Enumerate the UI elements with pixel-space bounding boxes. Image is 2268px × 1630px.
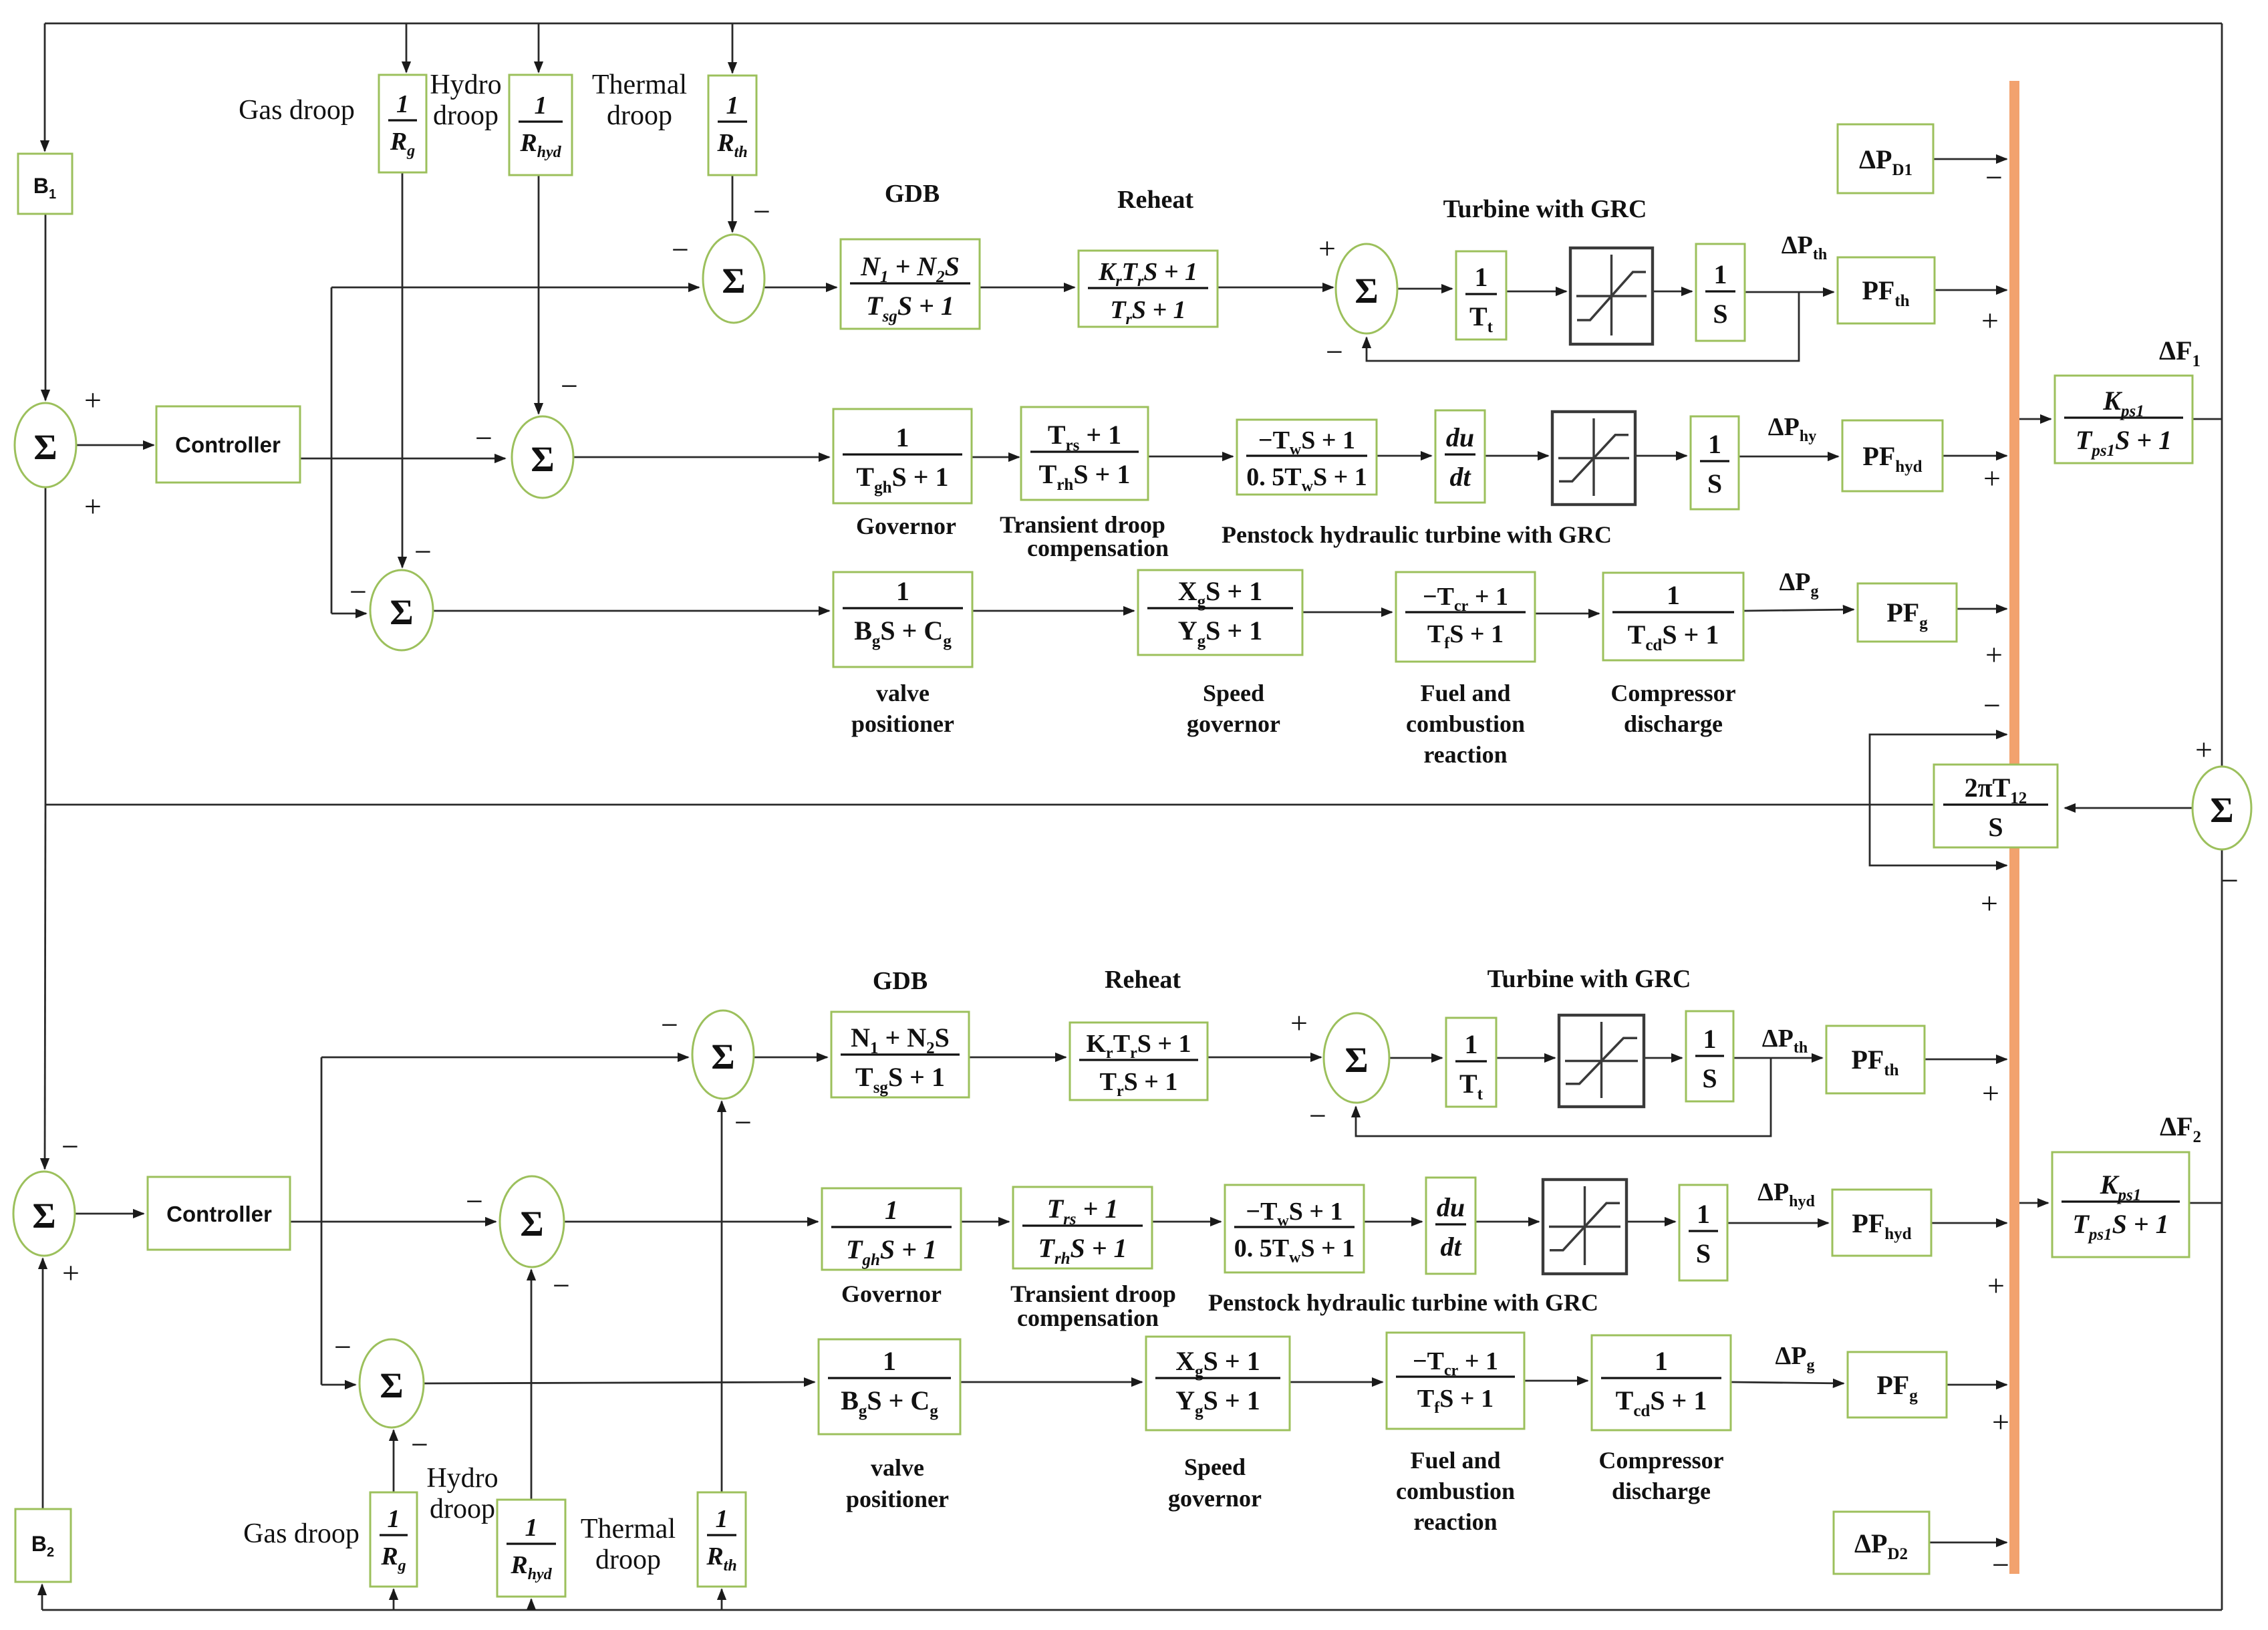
svg-text:TrS + 1: TrS + 1	[1110, 296, 1185, 328]
svg-text:TrhS + 1: TrhS + 1	[1038, 1233, 1127, 1268]
svg-text:KrTrS + 1: KrTrS + 1	[1098, 258, 1197, 290]
svg-text:Hydro: Hydro	[426, 1463, 498, 1494]
svg-text:droop: droop	[433, 100, 499, 131]
svg-text:droop: droop	[607, 100, 672, 131]
svg-text:Gas droop: Gas droop	[243, 1518, 360, 1549]
svg-text:+: +	[2195, 732, 2213, 767]
svg-text:−: −	[1985, 160, 2003, 194]
svg-text:+: +	[1981, 886, 1998, 920]
svg-text:compensation: compensation	[1027, 535, 1169, 561]
svg-text:Compressor: Compressor	[1610, 680, 1735, 706]
svg-text:Σ: Σ	[1344, 1040, 1368, 1080]
svg-text:TcdS + 1: TcdS + 1	[1628, 620, 1719, 654]
svg-text:Fuel and: Fuel and	[1410, 1447, 1500, 1474]
svg-text:combustion: combustion	[1396, 1478, 1515, 1504]
svg-text:BgS + Cg: BgS + Cg	[841, 1385, 938, 1420]
svg-text:1: 1	[1697, 1199, 1710, 1229]
svg-text:1: 1	[1465, 1029, 1478, 1059]
svg-text:Turbine with GRC: Turbine with GRC	[1443, 195, 1647, 223]
svg-text:Controller: Controller	[166, 1202, 272, 1226]
svg-text:discharge: discharge	[1624, 710, 1723, 737]
svg-text:Tps1S + 1: Tps1S + 1	[2072, 1209, 2168, 1244]
svg-text:Transient droop: Transient droop	[1010, 1280, 1176, 1307]
svg-text:Gas droop: Gas droop	[239, 95, 355, 126]
svg-text:Thermal: Thermal	[592, 70, 687, 100]
svg-text:Σ: Σ	[380, 1365, 403, 1405]
svg-text:Σ: Σ	[722, 261, 745, 301]
svg-text:1: 1	[396, 90, 409, 118]
svg-text:−: −	[2221, 863, 2239, 898]
svg-text:Σ: Σ	[711, 1037, 734, 1077]
svg-text:Σ: Σ	[32, 1196, 55, 1236]
svg-text:Speed: Speed	[1184, 1454, 1246, 1480]
svg-text:−: −	[1309, 1099, 1326, 1133]
svg-text:−: −	[61, 1129, 79, 1164]
svg-text:BgS + Cg: BgS + Cg	[854, 616, 952, 650]
svg-text:YgS + 1: YgS + 1	[1178, 616, 1262, 650]
svg-text:reaction: reaction	[1413, 1508, 1497, 1535]
svg-text:Trs + 1: Trs + 1	[1048, 420, 1121, 454]
svg-text:Σ: Σ	[531, 439, 554, 479]
svg-text:−: −	[411, 1428, 428, 1462]
svg-text:KrTrS + 1: KrTrS + 1	[1086, 1030, 1191, 1062]
svg-text:TrhS + 1: TrhS + 1	[1039, 459, 1131, 494]
svg-text:TrS + 1: TrS + 1	[1100, 1068, 1178, 1100]
svg-text:compensation: compensation	[1017, 1305, 1159, 1331]
svg-text:du: du	[1446, 422, 1474, 452]
svg-text:−: −	[349, 575, 367, 609]
svg-text:+: +	[1290, 1006, 1308, 1040]
svg-text:+: +	[1992, 1405, 2009, 1439]
svg-text:1: 1	[535, 92, 547, 120]
svg-text:−: −	[753, 194, 770, 229]
svg-text:−: −	[414, 535, 432, 569]
svg-text:1: 1	[1708, 429, 1721, 459]
svg-text:governor: governor	[1168, 1485, 1262, 1512]
svg-text:TsgS + 1: TsgS + 1	[855, 1062, 945, 1097]
svg-text:+: +	[84, 489, 102, 523]
svg-text:droop: droop	[595, 1544, 661, 1575]
svg-text:−TwS + 1: −TwS + 1	[1246, 1198, 1342, 1230]
svg-text:N1 + N2S: N1 + N2S	[851, 1023, 950, 1057]
svg-text:S: S	[1707, 468, 1722, 499]
svg-text:Transient droop: Transient droop	[1000, 511, 1165, 538]
svg-text:+: +	[1981, 303, 1999, 337]
svg-text:Hydro: Hydro	[430, 70, 501, 100]
svg-text:Reheat: Reheat	[1105, 966, 1181, 994]
svg-text:1: 1	[1655, 1346, 1668, 1376]
svg-text:YgS + 1: YgS + 1	[1175, 1385, 1260, 1420]
svg-text:1: 1	[388, 1505, 400, 1533]
svg-text:−TwS + 1: −TwS + 1	[1258, 426, 1355, 458]
svg-text:Speed: Speed	[1203, 680, 1264, 706]
svg-text:valve: valve	[871, 1454, 924, 1481]
svg-text:1: 1	[716, 1505, 728, 1533]
svg-text:TcdS + 1: TcdS + 1	[1616, 1385, 1707, 1420]
svg-text:Σ: Σ	[520, 1204, 543, 1244]
svg-text:Thermal: Thermal	[581, 1514, 676, 1544]
svg-text:−: −	[661, 1008, 678, 1042]
svg-text:−: −	[561, 369, 578, 403]
svg-text:Σ: Σ	[390, 592, 413, 632]
svg-text:−: −	[466, 1184, 483, 1218]
svg-text:TsgS + 1: TsgS + 1	[866, 291, 954, 325]
svg-text:Σ: Σ	[2210, 790, 2233, 830]
svg-text:S: S	[1696, 1238, 1711, 1268]
svg-text:Penstock hydraulic turbine wit: Penstock hydraulic turbine with GRC	[1222, 521, 1612, 548]
svg-text:dt: dt	[1440, 1232, 1462, 1262]
svg-text:positioner: positioner	[846, 1486, 949, 1512]
svg-text:governor: governor	[1187, 710, 1280, 737]
svg-text:+: +	[84, 383, 102, 417]
svg-text:Trs + 1: Trs + 1	[1047, 1194, 1119, 1228]
svg-text:XgS + 1: XgS + 1	[1178, 576, 1262, 611]
svg-text:1: 1	[896, 576, 909, 606]
svg-text:1: 1	[525, 1514, 538, 1542]
svg-text:−: −	[475, 421, 492, 455]
svg-text:combustion: combustion	[1406, 710, 1525, 737]
svg-text:1: 1	[1703, 1024, 1717, 1054]
svg-text:Σ: Σ	[33, 427, 57, 467]
svg-text:droop: droop	[430, 1494, 495, 1524]
svg-text:Turbine with GRC: Turbine with GRC	[1487, 965, 1691, 993]
svg-text:du: du	[1437, 1192, 1465, 1222]
svg-text:Σ: Σ	[1355, 271, 1378, 311]
svg-text:TfS + 1: TfS + 1	[1427, 620, 1504, 652]
svg-text:1: 1	[896, 422, 909, 452]
svg-text:Fuel and: Fuel and	[1420, 680, 1510, 706]
svg-text:−: −	[672, 233, 689, 267]
svg-text:1: 1	[1475, 262, 1488, 292]
svg-text:−: −	[1326, 335, 1343, 369]
svg-text:GDB: GDB	[885, 180, 940, 208]
svg-text:TghS + 1: TghS + 1	[846, 1234, 937, 1269]
svg-text:−: −	[334, 1330, 351, 1364]
svg-text:1: 1	[885, 1195, 898, 1225]
svg-text:discharge: discharge	[1612, 1478, 1711, 1504]
svg-text:N1 + N2S: N1 + N2S	[860, 251, 960, 286]
svg-text:+: +	[1982, 1076, 1999, 1110]
svg-text:−: −	[1983, 688, 2001, 722]
svg-text:dt: dt	[1449, 462, 1471, 492]
svg-text:Controller: Controller	[175, 432, 281, 457]
svg-text:TfS + 1: TfS + 1	[1417, 1385, 1494, 1417]
svg-text:positioner: positioner	[851, 710, 954, 737]
svg-text:Governor: Governor	[841, 1280, 942, 1307]
svg-text:S: S	[1713, 299, 1727, 329]
svg-text:GDB: GDB	[873, 967, 928, 995]
svg-text:S: S	[1702, 1063, 1717, 1093]
svg-text:S: S	[1988, 812, 2003, 842]
svg-text:Penstock hydraulic turbine wit: Penstock hydraulic turbine with GRC	[1208, 1289, 1598, 1316]
svg-text:−: −	[734, 1105, 752, 1139]
svg-text:+: +	[1983, 461, 2001, 495]
svg-text:+: +	[1318, 231, 1336, 265]
svg-text:TghS + 1: TghS + 1	[856, 462, 948, 497]
svg-text:Tps1S + 1: Tps1S + 1	[2076, 425, 2172, 460]
svg-text:+: +	[1987, 1268, 2005, 1303]
svg-text:Compressor: Compressor	[1598, 1447, 1723, 1474]
svg-text:1: 1	[1714, 259, 1727, 289]
svg-text:+: +	[1985, 638, 2003, 672]
svg-text:reaction: reaction	[1423, 741, 1507, 768]
svg-text:Governor: Governor	[856, 513, 956, 539]
svg-text:−: −	[1992, 1548, 2009, 1582]
svg-text:−: −	[553, 1268, 570, 1303]
svg-text:+: +	[62, 1256, 80, 1290]
svg-text:1: 1	[1667, 580, 1680, 610]
svg-text:Reheat: Reheat	[1117, 186, 1193, 214]
svg-text:valve: valve	[876, 680, 930, 706]
svg-text:XgS + 1: XgS + 1	[1175, 1346, 1260, 1381]
svg-text:1: 1	[883, 1346, 896, 1376]
svg-text:1: 1	[726, 92, 739, 120]
